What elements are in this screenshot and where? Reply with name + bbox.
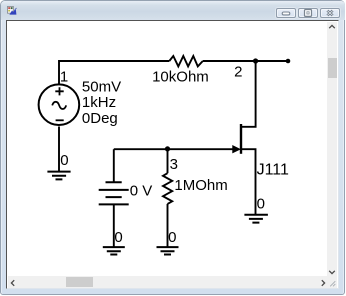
- svg-text:0: 0: [114, 229, 122, 246]
- svg-text:3: 3: [170, 156, 178, 173]
- resistor R2 1MOhm zigzag: [163, 173, 172, 204]
- ground GND3 (below 1MOhm): [157, 247, 179, 254]
- window icon: [7, 6, 17, 15]
- scrollbar corner: [327, 276, 337, 288]
- ground GND1 (below AC source): [47, 172, 70, 180]
- horizontal scrollbar thumb: [66, 277, 93, 287]
- svg-text:1: 1: [60, 68, 68, 85]
- battery V2 plates: [99, 182, 129, 204]
- wire node 2 down to J111 drain: [241, 61, 256, 127]
- resistor R2 1MOhm wire top: [167, 149, 169, 173]
- svg-text:0: 0: [257, 196, 265, 213]
- wire end dot: [286, 59, 291, 64]
- scroll up arrow: [327, 22, 337, 32]
- svg-text:J111: J111: [257, 161, 289, 178]
- battery wire top: [113, 149, 115, 182]
- resistor R2 wire bottom: [167, 204, 169, 247]
- restore button: [298, 8, 318, 18]
- battery wire bottom: [113, 204, 115, 247]
- ground (J111 source): [244, 215, 268, 223]
- svg-text:2: 2: [234, 64, 242, 81]
- junction node dot at node 3: [165, 146, 170, 151]
- transistor J111 source stub and wire to ground: [241, 149, 256, 215]
- ground GND2 (below battery): [103, 247, 125, 254]
- scroll down arrow: [327, 267, 337, 277]
- sine wave: [52, 102, 66, 109]
- junction node dot at node 2: [253, 58, 258, 63]
- horizontal scrollbar: [8, 276, 328, 288]
- svg-text:0Deg: 0Deg: [82, 110, 118, 127]
- wire node 3 to J111 gate: [114, 148, 234, 150]
- resize grip: [327, 278, 337, 288]
- wire AC bottom to ground: [58, 127, 60, 172]
- title bar: [1, 1, 345, 20]
- transistor J111 gate arrowhead: [233, 146, 240, 153]
- close button: [320, 8, 340, 18]
- svg-text:10kOhm: 10kOhm: [152, 68, 209, 85]
- scroll left arrow: [8, 278, 18, 288]
- vertical scrollbar thumb: [328, 58, 337, 78]
- svg-text:0: 0: [60, 152, 68, 169]
- wire top-left: AC source top to resistor: [59, 61, 169, 85]
- svg-text:50mV: 50mV: [82, 78, 121, 95]
- minus sign: [56, 119, 64, 121]
- minimize button: [276, 8, 296, 18]
- svg-text:0: 0: [168, 229, 176, 246]
- scroll right arrow: [318, 278, 328, 288]
- resistor 10kOhm zigzag: [169, 56, 203, 66]
- svg-text:0 V: 0 V: [130, 183, 153, 200]
- svg-text:1MOhm: 1MOhm: [174, 177, 227, 194]
- ac source V1 (50mV 1kHz) circle: [39, 84, 80, 125]
- svg-text:1kHz: 1kHz: [82, 94, 116, 111]
- transistor J111 channel bar: [240, 124, 242, 154]
- plus sign: [55, 87, 63, 95]
- vertical scrollbar: [327, 22, 337, 278]
- wire resistor to junction node 2 and stub end: [203, 60, 288, 62]
